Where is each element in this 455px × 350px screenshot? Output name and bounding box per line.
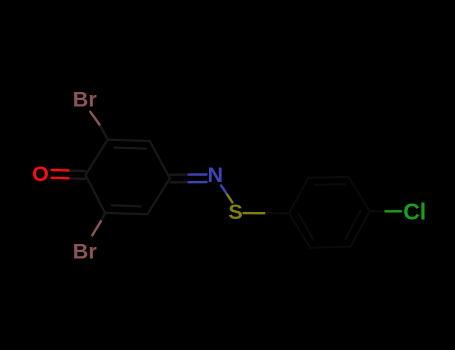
svg-text:Br: Br: [73, 240, 98, 264]
wire ring2 bond B4-B5: [350, 211, 369, 247]
wire ring1 bond C4-C5: [147, 178, 170, 214]
wire ring2 bond B3-B4: [349, 177, 370, 211]
svg-text:Cl: Cl: [403, 198, 426, 224]
wire N-S bond sulfur half: [227, 195, 232, 203]
svg-text:S: S: [228, 200, 242, 224]
wire ring2 inner double B2=B3: [315, 183, 345, 186]
wire C2-Br bond carbon half: [100, 125, 108, 140]
wire ring2 bond B6-B1: [289, 213, 310, 247]
wire C6-Br bond bromine half: [92, 221, 101, 235]
wire ring1 bond C2-C3: [108, 140, 150, 142]
wire ring2 bond B2-B3: [308, 177, 348, 178]
wire N-S bond nitrogen half: [221, 185, 227, 194]
wire C1=O double bond oxygen half top: [52, 169, 69, 172]
wire ring1 bond C3-C4: [150, 141, 170, 178]
wire C4=N double bond nitrogen half bottom: [189, 181, 207, 183]
wire S-ring2 bond carbon half: [266, 212, 289, 215]
svg-text:O: O: [32, 162, 49, 186]
wire ring1 inner double C2=C3: [115, 148, 147, 149]
svg-text:N: N: [208, 163, 224, 187]
wire ring1 inner double C5=C6: [112, 205, 141, 206]
wire C2-Br bond bromine half: [90, 112, 99, 125]
wire ring1 bond C5-C6: [105, 213, 147, 215]
wire C1=O double bond carbon half top: [69, 169, 86, 172]
wire C4=N double bond nitrogen half top: [189, 173, 207, 176]
wire ring2 bond B5-B6: [310, 247, 350, 248]
wire C1=O double bond carbon half bottom: [69, 177, 86, 180]
wire ring2 inner double B4=B5: [346, 211, 361, 239]
wire ring2-Cl bond carbon half: [370, 210, 386, 213]
wire C4=N double bond carbon half top: [171, 173, 189, 175]
wire C1=O double bond oxygen half bottom: [52, 176, 69, 179]
wire S-ring2 bond sulfur half: [244, 212, 267, 214]
wire ring1 bond C1-C2: [86, 140, 108, 175]
wire ring2 inner double B6=B1: [298, 213, 313, 240]
wire ring1 bond C6-C1: [86, 175, 106, 213]
wire ring2-Cl bond chlorine half: [386, 210, 402, 212]
wire C6-Br bond carbon half: [101, 213, 105, 222]
wire ring2 bond B1-B2: [289, 178, 308, 214]
svg-text:Br: Br: [73, 88, 98, 112]
wire C4=N double bond carbon half bottom: [171, 181, 189, 184]
